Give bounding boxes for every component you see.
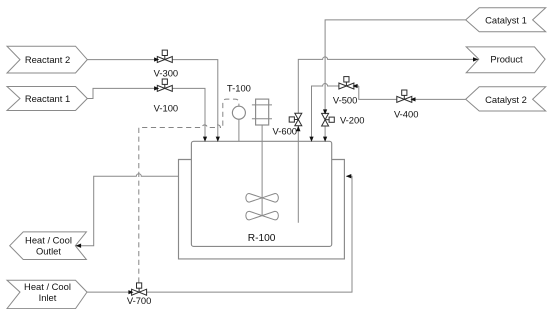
flag Catalyst 2 <box>466 87 546 111</box>
svg-text:Catalyst 1: Catalyst 1 <box>485 15 527 26</box>
flag Reactant 1 <box>7 87 87 111</box>
svg-text:V-600: V-600 <box>273 126 298 137</box>
svg-text:Inlet: Inlet <box>39 292 57 303</box>
flag Heat / Cool Outlet <box>10 232 87 260</box>
arrow into vessel from V-300 line <box>216 137 220 142</box>
instrument T-100 bubble <box>227 83 251 141</box>
wire product: dip tube up through V-600 to Product flag (hop over Catalyst 1 line) <box>298 57 477 223</box>
valve V-600 (vertical) <box>273 113 302 136</box>
wire Catalyst 1 to V-200 to vessel <box>325 20 466 141</box>
svg-text:V-700: V-700 <box>127 295 152 306</box>
arrow into Heat / Cool Outlet flag <box>76 244 82 248</box>
valve V-200 (vertical) <box>322 113 365 126</box>
flag Reactant 2 <box>7 46 87 73</box>
valve V-300 <box>154 50 179 78</box>
arrow into V-500 <box>352 84 357 88</box>
flag Heat / Cool Inlet <box>7 280 87 308</box>
svg-text:Reactant 2: Reactant 2 <box>25 54 70 65</box>
vessel R-100 <box>191 141 331 246</box>
svg-text:V-300: V-300 <box>154 67 179 78</box>
agitator motor <box>252 99 272 125</box>
svg-text:Reactant 1: Reactant 1 <box>25 93 70 104</box>
wire V-500 branch to vessel (hop over Catalyst 1 line) <box>312 84 359 141</box>
agitator impeller lower <box>246 211 279 220</box>
svg-text:Heat / Cool: Heat / Cool <box>24 281 71 292</box>
arrow into Product flag <box>473 57 479 61</box>
flag Catalyst 1 <box>466 8 546 32</box>
wire heat/cool outlet from jacket (hop over dashed signal) <box>77 174 179 246</box>
svg-text:V-400: V-400 <box>394 108 419 119</box>
svg-text:V-100: V-100 <box>154 102 179 113</box>
wire heat/cool inlet from flag through V-700 up to jacket <box>87 176 352 292</box>
arrow into V-700 <box>128 290 133 294</box>
svg-text:R-100: R-100 <box>248 233 276 244</box>
jacket <box>179 160 345 259</box>
svg-text:Catalyst 2: Catalyst 2 <box>485 94 527 105</box>
flag Product <box>466 47 545 73</box>
arrow into V-200 <box>323 109 327 114</box>
svg-text:Outlet: Outlet <box>36 246 61 257</box>
valve V-700 <box>127 283 152 306</box>
arrow into vessel from V-200 line <box>323 137 327 142</box>
valve V-500 <box>333 77 358 106</box>
svg-text:T-100: T-100 <box>227 83 251 94</box>
wire Reactant 2 to V-300 to vessel <box>87 60 218 141</box>
arrow into jacket from inlet line <box>346 174 352 178</box>
arrow into V-300 <box>154 57 159 61</box>
arrow into V-400 <box>410 97 415 101</box>
arrow into V-100 <box>154 86 159 90</box>
valve V-100 <box>154 79 179 113</box>
dashed signal V-700 to T-100 (hops over feed lines) <box>139 99 239 283</box>
wire Reactant 1 to V-100 to vessel <box>87 88 205 140</box>
arrow into vessel from V-500 branch <box>309 137 313 142</box>
svg-text:Heat / Cool: Heat / Cool <box>25 235 72 246</box>
valve V-400 <box>394 90 419 119</box>
arrow into vessel from V-100 line <box>203 137 207 142</box>
svg-text:V-500: V-500 <box>333 94 358 105</box>
arrow into V-600 <box>296 126 300 132</box>
agitator shaft <box>261 125 263 216</box>
svg-text:V-200: V-200 <box>340 115 365 126</box>
agitator impeller upper <box>246 194 279 203</box>
wire Catalyst 2 to V-400 to V-500 <box>359 86 466 99</box>
svg-text:Product: Product <box>490 54 523 65</box>
